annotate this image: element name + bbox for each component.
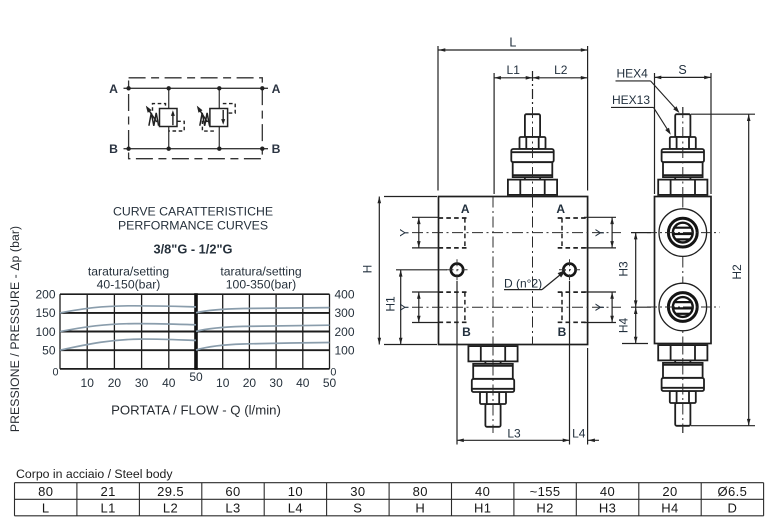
V1 spring bbox=[149, 113, 159, 126]
svg-text:H3: H3 bbox=[599, 500, 616, 515]
svg-text:S: S bbox=[678, 63, 686, 77]
svg-text:L2: L2 bbox=[163, 500, 178, 515]
dimension L4 bbox=[572, 348, 599, 445]
svg-text:L4: L4 bbox=[288, 500, 303, 515]
svg-text:60: 60 bbox=[225, 484, 240, 499]
node on line A bbox=[126, 86, 130, 90]
svg-text:L1: L1 bbox=[507, 63, 521, 77]
bottom adjustment screw (side) bbox=[658, 345, 707, 426]
svg-text:100-350(bar): 100-350(bar) bbox=[226, 278, 296, 292]
dimension H4 bbox=[616, 307, 648, 343]
side centerline bbox=[682, 107, 684, 433]
svg-text:L: L bbox=[509, 36, 516, 50]
dimension L2 bbox=[533, 63, 588, 80]
svg-text:3/8"G - 1/2"G: 3/8"G - 1/2"G bbox=[154, 242, 233, 257]
enclosure dashed box bbox=[129, 78, 263, 159]
relief valve V1 (left) bbox=[146, 104, 184, 131]
svg-text:300: 300 bbox=[335, 306, 355, 320]
svg-text:80: 80 bbox=[38, 484, 53, 499]
svg-text:20: 20 bbox=[108, 376, 122, 390]
svg-text:B: B bbox=[558, 325, 567, 339]
svg-text:taratura/setting: taratura/setting bbox=[220, 265, 301, 279]
svg-text:D: D bbox=[727, 500, 737, 515]
centerline top cartridge bbox=[532, 107, 534, 345]
svg-text:100: 100 bbox=[335, 343, 355, 357]
svg-text:H4: H4 bbox=[616, 318, 630, 334]
SIDE VIEW bbox=[647, 107, 720, 433]
svg-text:20: 20 bbox=[243, 376, 257, 390]
line B bbox=[124, 148, 269, 150]
svg-text:40: 40 bbox=[600, 484, 615, 499]
svg-text:80: 80 bbox=[413, 484, 428, 499]
dimension L3 bbox=[457, 281, 570, 445]
FRONT VIEW bbox=[412, 107, 621, 433]
svg-text:H1: H1 bbox=[383, 296, 397, 312]
top adjustment screw (front) bbox=[508, 114, 557, 195]
node on line A bbox=[260, 86, 264, 90]
svg-text:L: L bbox=[42, 500, 50, 515]
svg-text:400: 400 bbox=[335, 287, 355, 301]
svg-text:H1: H1 bbox=[474, 500, 491, 515]
svg-text:B: B bbox=[462, 325, 471, 339]
svg-text:29.5: 29.5 bbox=[157, 484, 184, 499]
svg-text:H2: H2 bbox=[730, 264, 744, 280]
svg-text:Y: Y bbox=[398, 303, 412, 311]
svg-text:B: B bbox=[272, 142, 281, 156]
V2 pilot dashes top-right bbox=[223, 104, 235, 114]
node on line A bbox=[167, 86, 171, 90]
dimension Y top-left bbox=[398, 217, 440, 248]
svg-text:Corpo in acciaio / Steel body: Corpo in acciaio / Steel body bbox=[16, 467, 173, 481]
dimension H1 bbox=[383, 270, 447, 345]
line A bbox=[124, 87, 269, 89]
svg-text:30: 30 bbox=[350, 484, 365, 499]
svg-text:L1: L1 bbox=[101, 500, 116, 515]
svg-text:Y: Y bbox=[593, 229, 607, 237]
svg-text:PERFORMANCE CURVES: PERFORMANCE CURVES bbox=[118, 219, 268, 233]
dimension L1 bbox=[494, 63, 532, 194]
svg-text:L3: L3 bbox=[507, 426, 521, 440]
svg-text:HEX13: HEX13 bbox=[612, 93, 650, 107]
svg-text:CURVE CARATTERISTICHE: CURVE CARATTERISTICHE bbox=[113, 205, 273, 219]
svg-text:A: A bbox=[272, 82, 281, 96]
plug port A (upper circle) bbox=[647, 209, 720, 257]
svg-text:10: 10 bbox=[216, 376, 230, 390]
svg-text:A: A bbox=[109, 82, 118, 96]
label HEX4 with leader bbox=[616, 67, 680, 114]
svg-text:H: H bbox=[361, 265, 375, 274]
valve body side bbox=[655, 197, 712, 344]
port row centerline A bbox=[412, 232, 621, 234]
valve body front bbox=[439, 197, 588, 345]
dimension S bbox=[655, 63, 712, 194]
svg-text:0: 0 bbox=[52, 367, 58, 379]
svg-text:PRESSIONE / PRESSURE - Δp (bar: PRESSIONE / PRESSURE - Δp (bar) bbox=[8, 226, 22, 432]
svg-text:A: A bbox=[461, 202, 470, 216]
chart gridlines bbox=[60, 368, 330, 370]
label HEX13 with leader bbox=[611, 93, 671, 135]
centerline bottom cartridge bbox=[492, 197, 494, 434]
svg-text:40: 40 bbox=[475, 484, 490, 499]
svg-text:200: 200 bbox=[335, 325, 355, 339]
port A left cavity (dashed) bbox=[439, 217, 468, 219]
bottom adjustment screw (front) bbox=[468, 346, 517, 427]
mounting hole D left bbox=[451, 264, 463, 276]
svg-text:taratura/setting: taratura/setting bbox=[88, 265, 169, 279]
svg-text:PORTATA / FLOW - Q (l/min): PORTATA / FLOW - Q (l/min) bbox=[111, 403, 281, 418]
svg-text:A: A bbox=[556, 202, 565, 216]
svg-text:H4: H4 bbox=[661, 500, 678, 515]
node on line B bbox=[167, 147, 171, 151]
V2 pilot dashes bottom-left bbox=[202, 121, 216, 131]
dimension H2 bbox=[691, 114, 755, 426]
svg-text:50: 50 bbox=[323, 376, 337, 390]
svg-text:L4: L4 bbox=[572, 426, 586, 440]
svg-text:21: 21 bbox=[101, 484, 116, 499]
plug port B (lower circle) bbox=[647, 283, 720, 331]
svg-text:200: 200 bbox=[35, 287, 55, 301]
relief valve V2 (right) bbox=[197, 104, 235, 132]
node on line B bbox=[260, 147, 264, 151]
svg-text:D (n°2): D (n°2) bbox=[504, 276, 542, 290]
svg-text:B: B bbox=[109, 142, 118, 156]
curves right chart bbox=[196, 343, 330, 351]
dimension Y bottom-left bbox=[398, 292, 440, 323]
port A right cavity (dashed) bbox=[558, 217, 588, 219]
svg-text:H2: H2 bbox=[536, 500, 553, 515]
hydraulic schematic: dual cross-line relief valve bbox=[109, 78, 281, 159]
svg-text:L2: L2 bbox=[554, 63, 568, 77]
svg-text:Ø6.5: Ø6.5 bbox=[717, 484, 747, 499]
wire right valve bbox=[218, 88, 220, 148]
dimension Y top-right bbox=[584, 217, 616, 248]
svg-text:40: 40 bbox=[296, 376, 310, 390]
dimensions table bbox=[15, 467, 764, 516]
V1 flow arrow (up) bbox=[172, 113, 174, 126]
dimension Y bottom-right bbox=[584, 292, 616, 323]
mounting hole D right bbox=[563, 264, 575, 276]
port B left cavity (dashed) bbox=[439, 291, 468, 293]
chart center divider bbox=[194, 293, 198, 370]
svg-text:40-150(bar): 40-150(bar) bbox=[97, 278, 161, 292]
svg-text:Y: Y bbox=[398, 229, 412, 237]
svg-text:L3: L3 bbox=[225, 500, 240, 515]
wire left valve bbox=[168, 88, 170, 148]
node on line B bbox=[126, 147, 130, 151]
svg-text:50: 50 bbox=[189, 370, 203, 384]
node on line B bbox=[217, 147, 221, 151]
V1 pilot dashes bottom-right bbox=[169, 121, 185, 131]
svg-text:H3: H3 bbox=[616, 261, 630, 277]
V2 spring bbox=[200, 113, 210, 126]
svg-text:40: 40 bbox=[162, 376, 176, 390]
dimension H bbox=[361, 197, 438, 345]
cartridge axis inside body (redrawn over fill) bbox=[532, 197, 534, 345]
svg-text:20: 20 bbox=[662, 484, 677, 499]
svg-text:30: 30 bbox=[135, 376, 149, 390]
top adjustment screw (side) bbox=[658, 114, 707, 195]
svg-text:HEX4: HEX4 bbox=[617, 67, 649, 81]
V2 flow arrow (down) bbox=[222, 110, 224, 123]
V2 adjustment arrow bbox=[198, 108, 207, 122]
dimension L bbox=[438, 36, 588, 191]
V1 pilot dashes top-left bbox=[153, 104, 166, 111]
svg-text:10: 10 bbox=[81, 376, 95, 390]
svg-text:S: S bbox=[353, 500, 362, 515]
port row centerline B bbox=[412, 306, 621, 308]
port B right cavity (dashed) bbox=[558, 291, 588, 293]
V1 adjustment arrow bbox=[147, 108, 157, 122]
svg-text:150: 150 bbox=[35, 306, 55, 320]
performance curves chart bbox=[8, 205, 355, 433]
svg-text:~155: ~155 bbox=[530, 484, 561, 499]
svg-text:100: 100 bbox=[35, 325, 55, 339]
svg-text:Y: Y bbox=[593, 303, 607, 311]
svg-text:10: 10 bbox=[288, 484, 303, 499]
node on line A bbox=[217, 86, 221, 90]
svg-text:50: 50 bbox=[42, 343, 56, 357]
svg-text:H: H bbox=[415, 500, 425, 515]
curves left chart bbox=[60, 339, 196, 350]
dimension H3 bbox=[616, 233, 651, 308]
svg-text:30: 30 bbox=[269, 376, 283, 390]
